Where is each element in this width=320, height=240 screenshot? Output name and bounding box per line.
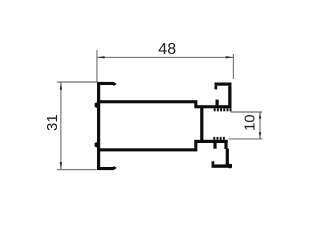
- dim 31 bottom extension line: [57, 169, 97, 171]
- bottom step connector: [194, 143, 197, 148]
- dim 10 line: [259, 112, 261, 139]
- left wall: [97, 82, 100, 170]
- dimension lines: [57, 50, 262, 170]
- dim 48 left extension line: [96, 50, 98, 81]
- dim 31 top extension line: [57, 81, 98, 83]
- svg-text:10: 10: [242, 114, 259, 131]
- top-left hook bar: [97, 82, 114, 85]
- bottom serration teeth: [213, 137, 215, 140]
- dim 48 right extension line: [232, 54, 234, 79]
- svg-text:31: 31: [44, 114, 61, 131]
- left wall lower outer rib: [95, 142, 97, 147]
- box top wall: [97, 100, 197, 103]
- lower top wall (glazing ledge): [194, 105, 231, 108]
- bottom channel barb: [212, 161, 215, 164]
- top serration teeth: [214, 108, 216, 111]
- bottom channel stub: [213, 143, 216, 149]
- bottom channel foot: [228, 164, 232, 168]
- top step connector: [194, 103, 197, 106]
- top channel stub: [216, 100, 219, 106]
- top channel barb: [215, 86, 218, 90]
- bottom channel outer wall upper: [224, 143, 227, 149]
- dim 10 bottom extension line: [229, 138, 263, 140]
- dim 48 line: [97, 56, 233, 58]
- bottom channel outer wall lower: [226, 149, 229, 165]
- left wall upper outer rib: [95, 103, 97, 108]
- bottom-left hook bar: [97, 167, 114, 170]
- dim 10 top extension line: [231, 111, 263, 113]
- svg-text:48: 48: [158, 41, 176, 58]
- dim 31 bottom arrow: [60, 162, 62, 170]
- top channel outer wall: [228, 86, 231, 106]
- dim 10 bottom arrow: [259, 132, 261, 139]
- dim 10 top arrow: [259, 112, 261, 119]
- dim 31 top arrow: [60, 82, 62, 90]
- box right wall: [200, 108, 203, 140]
- top channel top bar: [215, 83, 232, 86]
- bottom-left hook tip: [113, 166, 116, 170]
- dim 48 left arrow: [97, 56, 105, 58]
- dim 31 line: [60, 82, 62, 170]
- bottom channel bottom bar: [212, 164, 231, 167]
- top-left hook tip: [113, 82, 116, 86]
- box bottom wall: [97, 148, 197, 151]
- profile outline: aluminium frame section: [95, 82, 232, 170]
- dim 48 right arrow: [226, 56, 234, 58]
- bottom bridge bar: [194, 140, 228, 143]
